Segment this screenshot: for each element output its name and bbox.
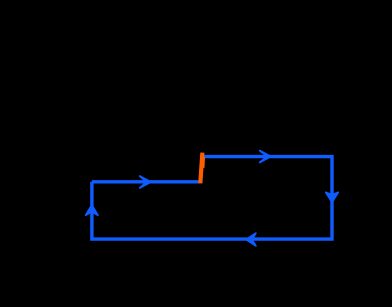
arrowhead: current arrow left on bottom wire [246,233,256,246]
wire: top-left horizontal segment [92,180,201,183]
battery element thick upper part [202,157,206,168]
wire: circuit loop (left vertical, bottom, right vertical, top-right) [92,157,332,240]
arrowhead: current arrow down on right wire [326,192,338,202]
arrowhead: current arrow right on top-right wire [260,151,271,163]
battery / EMF element (orange segment) [200,153,202,184]
arrowhead: current arrow right on top-left wire [140,176,151,188]
arrowhead: current arrow up on left wire [86,205,98,215]
